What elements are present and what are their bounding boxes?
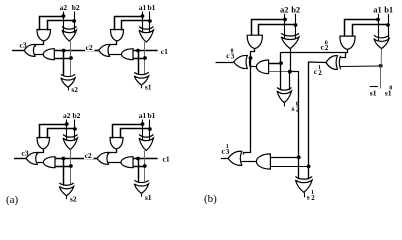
label c2 (a bottom row) bbox=[84, 153, 94, 160]
node p branch (a-top-left) bbox=[69, 56, 73, 60]
XOR gate a⊕b (a-bottom-left) bbox=[63, 135, 78, 138]
wire p1 output vertical (b) bbox=[380, 49, 382, 66]
wire g1 down to s2-0 XOR (b) bbox=[280, 63, 282, 90]
OR gate carry-out (a-bottom-left) bbox=[26, 152, 37, 164]
node p2 branch (b) bbox=[288, 70, 292, 74]
node a1 branch (b) bbox=[376, 18, 380, 22]
wire b1 vertical (a-bottom-right) bbox=[149, 120, 151, 141]
wire s2-1 output (b) bbox=[304, 192, 306, 197]
wire AND bottom top input (b) bbox=[270, 157, 298, 159]
node p2 to AND bottom (b) bbox=[297, 155, 301, 159]
node a1 branch (a-bottom-right) bbox=[141, 122, 145, 126]
svg-text:0: 0 bbox=[389, 85, 392, 91]
wire p to AND-left (a-bottom-right) bbox=[133, 166, 145, 168]
wire g1 / c2-0 horizontal (b) bbox=[281, 50, 348, 64]
svg-text:s: s bbox=[292, 104, 295, 113]
svg-text:s: s bbox=[307, 192, 310, 201]
node b1 branch (a-bottom-right) bbox=[148, 127, 152, 131]
node p branch (a-bottom-left) bbox=[69, 164, 73, 168]
svg-text:2: 2 bbox=[325, 44, 329, 52]
wire a1 vertical (a-bottom-right) bbox=[142, 120, 144, 141]
svg-text:a1: a1 bbox=[139, 111, 147, 120]
svg-text:c3: c3 bbox=[20, 40, 27, 49]
wire AND bottom lower input (b) bbox=[270, 166, 308, 168]
wire p2 to AND mid bottom input (b) bbox=[269, 71, 290, 73]
XOR gate sum (a-bottom-left) bbox=[59, 183, 73, 185]
wire carry-out (a-top-right) bbox=[87, 50, 99, 52]
svg-text:c3: c3 bbox=[22, 148, 29, 157]
node c2-1 to AND bottom (b) bbox=[307, 165, 311, 169]
wire b2 to AND (a-top-left) bbox=[48, 21, 75, 31]
wire carry-in (a-bottom-right) bbox=[133, 158, 158, 160]
wire AND output to OR (a-top-left) bbox=[36, 41, 44, 47]
svg-text:3: 3 bbox=[226, 148, 230, 156]
AND gate a·b (a-bottom-right) bbox=[110, 138, 123, 150]
XOR gate p2=a2⊕b2 (b) bbox=[281, 33, 299, 36]
wire b1 vertical (b) bbox=[388, 14, 390, 41]
wire b1 to AND (a-bottom-right) bbox=[121, 129, 150, 139]
svg-text:b2: b2 bbox=[72, 3, 80, 12]
svg-text:b1: b1 bbox=[384, 5, 393, 15]
wire a2 vertical (b) bbox=[284, 14, 286, 39]
node a1 branch (a-top-right) bbox=[141, 14, 145, 18]
wire c3-1 output (b) bbox=[221, 158, 228, 160]
node a2 branch (a-bottom-left) bbox=[65, 122, 69, 126]
AND gate a·b (a-top-right) bbox=[111, 30, 124, 42]
node carry branch (a-bottom-left) bbox=[62, 157, 66, 161]
XOR gate a⊕b (a-bottom-right) bbox=[139, 135, 154, 138]
AND gate a·b (a-top-left) bbox=[37, 30, 51, 42]
AND gate a·b (a-bottom-left) bbox=[37, 138, 50, 150]
svg-text:c1: c1 bbox=[163, 154, 170, 163]
svg-text:s2: s2 bbox=[70, 195, 77, 204]
wire sum output (a-top-left) bbox=[68, 87, 70, 90]
wire sum output (a-bottom-left) bbox=[66, 196, 68, 199]
wire p vertical (a-top-left) bbox=[70, 41, 72, 76]
node b1 branch (a-top-right) bbox=[148, 19, 152, 23]
AND gate g1·p2 (b) bbox=[256, 60, 268, 74]
wire b2 to AND (b) bbox=[259, 25, 296, 36]
svg-text:s2: s2 bbox=[71, 85, 78, 94]
node b2 branch (a-bottom-left) bbox=[73, 127, 77, 131]
wire carry to sum XOR (a-bottom-right) bbox=[138, 159, 140, 182]
XOR gate sum (a-top-left) bbox=[61, 74, 75, 76]
node b1 branch (b) bbox=[386, 23, 390, 27]
node p1 branch (b) bbox=[379, 64, 383, 68]
wire b2 vertical (a-top-left) bbox=[74, 12, 76, 33]
wire a2 to AND (b) bbox=[252, 20, 286, 36]
node g1 branch (b) bbox=[279, 61, 283, 65]
wire p to AND-left (a-top-right) bbox=[133, 58, 145, 60]
wire p2 output vertical (b) bbox=[290, 49, 292, 72]
wire c2-1 output (b) bbox=[309, 62, 327, 166]
AND gate p2·c2-1 (b) bbox=[256, 154, 270, 169]
wire a2 vertical (a-top-left) bbox=[63, 12, 65, 33]
wire p vertical (a-bottom-right) bbox=[144, 151, 146, 182]
svg-text:2: 2 bbox=[296, 105, 300, 113]
wire p1 to XOR c2-1 bottom input (b) bbox=[340, 65, 380, 68]
wire p2 jog right (b) bbox=[290, 72, 299, 81]
AND gate g2=a2·b2 (b) bbox=[247, 35, 262, 48]
wire b1 vertical (a-top-right) bbox=[149, 12, 151, 33]
OR gate carry-out (a-bottom-right) bbox=[97, 152, 109, 164]
svg-text:s1: s1 bbox=[145, 83, 152, 92]
wire a2 to AND (a-bottom-left) bbox=[40, 125, 67, 139]
wire g2 output (b) bbox=[244, 49, 255, 155]
wire a1 vertical (b) bbox=[378, 14, 380, 41]
node a2 branch (b) bbox=[283, 18, 287, 22]
wire carry to sum XOR (a-top-right) bbox=[138, 51, 140, 74]
OR gate carry-out (a-top-right) bbox=[99, 44, 110, 56]
svg-text:c2: c2 bbox=[85, 151, 92, 160]
wire b2 vertical (a-bottom-left) bbox=[74, 120, 76, 141]
XOR gate s2-1 (b) bbox=[295, 177, 312, 180]
wire p2 down to s2-0 XOR (b) bbox=[289, 72, 291, 91]
svg-text:s1: s1 bbox=[370, 89, 377, 98]
wire a1 vertical (a-top-right) bbox=[142, 12, 144, 33]
svg-text:a2: a2 bbox=[60, 3, 68, 12]
wire sum output (a-top-right) bbox=[141, 85, 143, 88]
wire AND bottom output (b) bbox=[242, 161, 257, 163]
wire carry-out (a-top-left) bbox=[12, 50, 24, 52]
wire c2-1 down to s2-1 XOR (b) bbox=[308, 166, 310, 179]
node g2 to XOR c3-0 (b) bbox=[249, 56, 253, 60]
wire carry-in (a-bottom-left) bbox=[55, 158, 97, 160]
node p branch (a-bottom-right) bbox=[143, 164, 147, 168]
XOR gate p1=a1⊕b1 (b) bbox=[374, 35, 389, 38]
wire b1 to AND (b) bbox=[353, 25, 389, 37]
node carry branch (a-top-right) bbox=[136, 49, 140, 53]
wire carry to sum XOR (a-top-left) bbox=[63, 51, 65, 76]
AND gate p·c (a-top-left) bbox=[43, 49, 54, 60]
AND gate p·c (a-bottom-right) bbox=[121, 157, 133, 168]
wire carry-out (a-bottom-left) bbox=[14, 158, 26, 160]
wire p to AND-left (a-bottom-left) bbox=[55, 166, 71, 168]
AND gate p·c (a-top-right) bbox=[122, 49, 133, 60]
wire sum output (a-bottom-right) bbox=[141, 193, 143, 196]
node p branch (a-top-right) bbox=[143, 56, 147, 60]
wire a1 to AND (b) bbox=[345, 20, 379, 37]
svg-text:a2: a2 bbox=[280, 5, 289, 15]
wire a2 vertical (a-bottom-left) bbox=[66, 120, 68, 141]
wire a2 to AND (a-top-left) bbox=[40, 17, 64, 31]
node carry branch (a-top-left) bbox=[62, 49, 66, 53]
wire carry-in (a-top-left) bbox=[54, 50, 98, 52]
svg-text:b2: b2 bbox=[291, 5, 300, 15]
wire AND-left output to OR (a-top-left) bbox=[35, 54, 43, 56]
svg-text:b2: b2 bbox=[73, 111, 81, 120]
wire a1 to AND (a-top-right) bbox=[115, 17, 143, 31]
wire AND output to OR (a-bottom-left) bbox=[38, 149, 44, 155]
wire s2-0 output (b) bbox=[284, 103, 286, 107]
node a2 branch (a-top-left) bbox=[62, 14, 66, 18]
wire AND-left output to OR (a-bottom-right) bbox=[109, 162, 122, 164]
wire AND output to OR (a-bottom-right) bbox=[109, 149, 117, 155]
wire c3-0 output (b) bbox=[216, 62, 234, 64]
label s1-bar (b) bbox=[370, 86, 378, 88]
OR gate c3-1 (b) bbox=[228, 151, 242, 165]
wire AND mid output to XOR c3-0 (b) bbox=[250, 65, 256, 68]
wire b2 vertical (b) bbox=[295, 14, 297, 39]
XOR gate s2-0 (b) bbox=[277, 88, 292, 91]
XOR gate c2-1 (b) bbox=[326, 56, 337, 70]
wire g1 branch to XOR c2-1 (b) bbox=[340, 52, 345, 57]
wire AND-left output to OR (a-bottom-left) bbox=[37, 162, 43, 164]
wire AND-left output to OR (a-top-right) bbox=[110, 54, 122, 56]
wire carry-out (a-bottom-right) bbox=[85, 158, 97, 160]
svg-text:b1: b1 bbox=[148, 111, 156, 120]
XOR gate sum (a-bottom-right) bbox=[134, 180, 148, 182]
node b2 branch (a-top-left) bbox=[72, 19, 76, 23]
AND gate p·c (a-bottom-left) bbox=[43, 157, 55, 168]
wire g1 to AND mid top input (b) bbox=[269, 63, 281, 65]
svg-text:b1: b1 bbox=[148, 3, 156, 12]
OR gate carry-out (a-top-left) bbox=[24, 44, 35, 56]
AND gate g1=a1·b1 (b) bbox=[340, 36, 355, 49]
node carry branch (a-bottom-right) bbox=[136, 157, 140, 161]
svg-text:a1: a1 bbox=[139, 3, 147, 12]
wire AND output to OR (a-top-right) bbox=[110, 41, 117, 47]
svg-text:s1: s1 bbox=[145, 193, 152, 202]
svg-text:2: 2 bbox=[318, 69, 322, 77]
wire p1 down to s1 labels (b) bbox=[380, 66, 382, 89]
node b2 branch (b) bbox=[294, 23, 298, 27]
wire carry to sum XOR (a-bottom-left) bbox=[63, 159, 65, 185]
wire p to AND-left (a-top-left) bbox=[54, 58, 71, 60]
XOR gate c3-0 (b) bbox=[234, 55, 248, 68]
XOR gate a⊕b (a-top-left) bbox=[62, 27, 77, 30]
wire b2 to AND (a-bottom-left) bbox=[48, 129, 75, 139]
XOR gate a⊕b (a-top-right) bbox=[139, 27, 154, 30]
XOR gate sum (a-top-right) bbox=[134, 72, 148, 74]
svg-text:2: 2 bbox=[311, 194, 315, 202]
wire b1 to AND (a-top-right) bbox=[122, 21, 150, 31]
wire carry-in (a-top-right) bbox=[133, 50, 158, 52]
svg-text:(b): (b) bbox=[204, 193, 217, 205]
svg-text:a2: a2 bbox=[63, 111, 71, 120]
wire a1 to AND (a-bottom-right) bbox=[113, 125, 143, 139]
label c2 (a top row) bbox=[85, 45, 95, 52]
svg-text:c2: c2 bbox=[86, 43, 93, 52]
svg-text:a1: a1 bbox=[373, 5, 382, 15]
svg-text:c1: c1 bbox=[161, 47, 168, 56]
wire p vertical (a-top-right) bbox=[144, 42, 146, 74]
svg-text:(a): (a) bbox=[6, 194, 19, 206]
svg-text:3: 3 bbox=[231, 52, 235, 60]
wire p vertical (a-bottom-left) bbox=[70, 150, 72, 185]
wire p2 long vertical (b) bbox=[298, 79, 300, 179]
